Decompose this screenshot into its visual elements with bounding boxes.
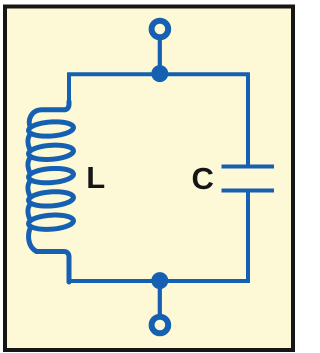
svg-text:C: C [192, 161, 214, 196]
wire: bottom horizontal [67, 279, 250, 283]
node: bottom junction dot [151, 272, 168, 289]
wire: left vertical top segment [67, 73, 71, 105]
node: top junction dot [151, 65, 168, 82]
inductor L1 coil [29, 102, 69, 128]
wire: top terminal stem [158, 38, 162, 74]
wire: right vertical bottom segment [246, 191, 250, 283]
wire: right vertical top segment [246, 73, 250, 167]
bottom terminal ring [152, 317, 169, 334]
top terminal ring [152, 21, 169, 38]
wire: bottom terminal stem [158, 281, 162, 316]
svg-text:L: L [86, 160, 105, 195]
capacitor C top plate [222, 165, 275, 169]
capacitor C bottom plate [222, 189, 275, 193]
wire: top horizontal [67, 72, 250, 76]
